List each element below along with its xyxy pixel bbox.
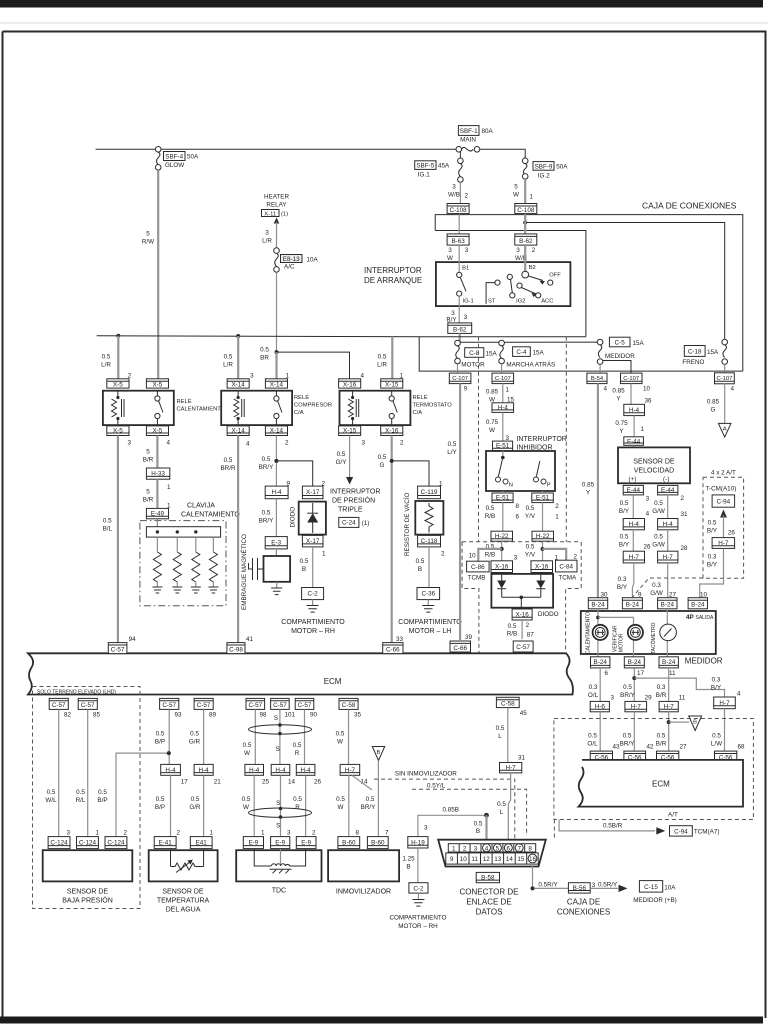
- relay 3 coil: [348, 391, 358, 426]
- connector C-107 (motor): [449, 373, 471, 384]
- connector H-6: [590, 701, 609, 711]
- svg-text:T-CM(A10): T-CM(A10): [706, 485, 737, 492]
- svg-text:14: 14: [506, 856, 514, 863]
- connector C-124 (3): [48, 837, 70, 849]
- svg-text:0.5: 0.5: [496, 725, 505, 732]
- svg-text:B/Y: B/Y: [707, 562, 718, 569]
- svg-text:0.5: 0.5: [337, 451, 346, 458]
- connector X-5 top-left: [107, 379, 129, 389]
- connector C-57 (diodo): [513, 641, 533, 652]
- svg-text:0.5: 0.5: [260, 347, 269, 354]
- svg-text:E-9: E-9: [248, 840, 258, 847]
- wire 0.5 W H-7 to B-60(8): [348, 775, 350, 836]
- svg-text:COMPARTIMIENTO: COMPARTIMIENTO: [281, 619, 345, 626]
- svg-text:L/R: L/R: [101, 362, 111, 369]
- svg-text:0.5: 0.5: [224, 354, 233, 361]
- svg-text:A: A: [723, 427, 727, 433]
- svg-text:0.5R/Y: 0.5R/Y: [538, 881, 558, 888]
- svg-text:1: 1: [167, 484, 171, 491]
- svg-text:B-58: B-58: [481, 874, 495, 881]
- svg-text:0.5: 0.5: [708, 520, 717, 527]
- connector B-24 (11): [659, 657, 678, 668]
- svg-text:C-119: C-119: [421, 489, 438, 496]
- svg-text:MOTOR – RH: MOTOR – RH: [398, 923, 438, 930]
- svg-text:B-62: B-62: [453, 327, 467, 334]
- connector X-11: [262, 210, 280, 217]
- wire col 89 (0.5 G/R) to H-4(21): [203, 709, 205, 764]
- svg-text:90: 90: [310, 711, 318, 718]
- svg-text:B/Y: B/Y: [619, 542, 630, 549]
- svg-text:A/C: A/C: [284, 264, 295, 271]
- svg-text:C/A: C/A: [413, 410, 423, 416]
- svg-text:W: W: [244, 750, 250, 757]
- svg-text:X-11: X-11: [264, 211, 276, 217]
- svg-text:3: 3: [516, 247, 520, 254]
- svg-text:C-5: C-5: [615, 340, 626, 347]
- wire B-62 to fuse feed: [459, 333, 461, 342]
- wire 0.85B H-19 to DLC pin 4: [418, 815, 487, 836]
- connector X-16 left: [491, 561, 513, 573]
- connector H-7 (-): [658, 551, 678, 563]
- svg-text:15A: 15A: [533, 350, 545, 357]
- svg-text:3: 3: [67, 830, 71, 837]
- svg-text:0.5: 0.5: [156, 730, 165, 737]
- svg-text:8: 8: [516, 503, 520, 510]
- svg-text:INMOVILIZADOR: INMOVILIZADOR: [336, 889, 391, 896]
- svg-text:4: 4: [646, 511, 650, 518]
- gauge TACOMETRO: [650, 622, 676, 654]
- svg-text:2: 2: [526, 622, 530, 629]
- wire IG.1 drop: [459, 152, 461, 158]
- svg-text:C-94: C-94: [716, 499, 730, 506]
- connector C-107 (medidor): [621, 373, 643, 384]
- svg-text:H-4: H-4: [199, 767, 210, 774]
- wire 0.5 L C-58(45) to H-7(31): [507, 708, 509, 763]
- svg-text:W/B: W/B: [448, 192, 460, 199]
- wire 0.5 BR/Y X-14(2) down + branch to X-17: [275, 436, 277, 487]
- svg-text:0.5: 0.5: [102, 354, 111, 361]
- connector B-60 (7): [367, 837, 388, 849]
- TDC wires lower: [253, 775, 255, 836]
- band outline with torn edges: [28, 653, 573, 694]
- svg-text:0.5: 0.5: [526, 505, 535, 512]
- connector B-58: [476, 872, 499, 882]
- svg-text:H-7: H-7: [345, 767, 356, 774]
- svg-text:12: 12: [483, 856, 491, 863]
- wire: bus from SBF-1 to IG.2 drop: [480, 149, 525, 158]
- wire 0.75 Y H-4 to E-44: [633, 416, 635, 437]
- svg-text:6: 6: [516, 514, 520, 521]
- connector H-4 (-): [658, 519, 678, 530]
- svg-text:H-7: H-7: [663, 554, 674, 561]
- svg-text:H-33: H-33: [151, 470, 165, 477]
- svg-text:C-57: C-57: [248, 702, 262, 709]
- wire col 35 (0.5 W) to H-7(14): [348, 709, 350, 764]
- connector C-58 (35): [339, 698, 358, 709]
- svg-text:RELÉ: RELÉ: [294, 394, 309, 401]
- wires H row to C-56 row: [599, 712, 601, 751]
- wire 5 B/R X-5(4) to H-33: [156, 436, 158, 469]
- fuse SBF-9 IG.2 50A: [522, 158, 568, 179]
- node tap relay1: [116, 334, 120, 338]
- svg-text:C-4: C-4: [516, 349, 527, 356]
- arrow up to C-94: [720, 510, 727, 518]
- svg-text:C-58: C-58: [501, 701, 515, 708]
- wire 0.5 BR/Y H-4 to E-3: [275, 499, 277, 537]
- svg-text:B-24: B-24: [691, 601, 705, 608]
- fuse row box: [419, 337, 743, 371]
- glow plug dash-dot enclosure: [140, 521, 226, 606]
- svg-text:94: 94: [129, 636, 137, 643]
- svg-text:0.5: 0.5: [293, 796, 302, 803]
- svg-text:BR: BR: [260, 355, 269, 362]
- svg-text:X-14: X-14: [270, 427, 284, 434]
- connector C-58 (45): [496, 697, 519, 707]
- svg-text:W: W: [338, 804, 344, 811]
- svg-text:R/B: R/B: [485, 552, 496, 559]
- connector B-54: [587, 373, 607, 384]
- connector H-4 (26): [296, 764, 315, 775]
- svg-text:C-107: C-107: [495, 376, 511, 382]
- svg-text:RELÉ: RELÉ: [413, 394, 428, 401]
- connector B-24 (30): [588, 598, 607, 609]
- resistor zigzag: [425, 503, 433, 533]
- svg-text:ECM: ECM: [652, 780, 670, 789]
- wire 0.5 L/Y C-107(9) to C-66(39): [459, 384, 461, 640]
- svg-text:B: B: [476, 828, 480, 835]
- svg-text:50A: 50A: [187, 154, 199, 161]
- wire 0.5 R/B X-16 to C-57(87): [521, 620, 523, 639]
- svg-text:0.5: 0.5: [623, 733, 632, 740]
- svg-text:S: S: [274, 715, 278, 722]
- connector H-22 left: [491, 531, 513, 541]
- svg-text:0.5: 0.5: [262, 510, 271, 517]
- svg-text:G: G: [711, 407, 716, 414]
- fuse outputs to connectors: [457, 364, 459, 373]
- svg-text:C-107: C-107: [452, 376, 468, 382]
- svg-text:29: 29: [645, 695, 653, 702]
- svg-text:L/R: L/R: [377, 362, 387, 369]
- wire 0.85 G to triangle A: [724, 384, 726, 423]
- connector H-7 (68): [714, 697, 736, 709]
- connector H-4 (inhibidor): [492, 403, 514, 413]
- svg-text:2: 2: [177, 830, 181, 837]
- svg-text:DIODO: DIODO: [538, 611, 559, 618]
- svg-text:G/R: G/R: [189, 804, 201, 811]
- svg-text:0.5: 0.5: [654, 500, 663, 507]
- svg-text:0.5: 0.5: [242, 796, 251, 803]
- relay 3 body: [340, 391, 411, 425]
- svg-text:45A: 45A: [438, 163, 450, 170]
- connector C-107 (marcha atras): [492, 373, 514, 384]
- connector E-51 right (below switch): [532, 493, 554, 503]
- glow plug bus bar: [146, 527, 220, 537]
- svg-text:9: 9: [450, 856, 454, 863]
- node + line to triangle B: [667, 720, 671, 724]
- svg-text:0.5Y/L: 0.5Y/L: [427, 782, 446, 789]
- svg-text:3: 3: [474, 845, 478, 852]
- connector H-4 (17): [161, 764, 181, 775]
- glow plug 4: [208, 537, 218, 593]
- connector H-7 (A10): [712, 538, 735, 549]
- svg-text:28: 28: [681, 545, 689, 552]
- svg-text:MOTOR – RH: MOTOR – RH: [291, 628, 335, 635]
- svg-text:MEDIDOR: MEDIDOR: [685, 657, 723, 666]
- svg-text:3: 3: [514, 555, 518, 562]
- svg-text:0.75: 0.75: [486, 419, 499, 426]
- wire C-5 to C-107 to H-4: [630, 384, 632, 405]
- diode box: [299, 502, 326, 535]
- ECM box (right): [579, 760, 744, 807]
- connector C-94 (A7): [670, 826, 693, 836]
- svg-text:0.5: 0.5: [191, 796, 200, 803]
- svg-text:0.5: 0.5: [190, 730, 199, 737]
- connector E-9 (3): [271, 837, 290, 849]
- svg-text:C-124: C-124: [50, 840, 68, 847]
- connector E41 (1): [190, 837, 212, 849]
- svg-text:C/A: C/A: [294, 410, 304, 416]
- connector E-44 (-): [658, 485, 678, 495]
- svg-text:C-94: C-94: [674, 829, 688, 836]
- connector C-98 (41) on ECM: [227, 643, 245, 654]
- svg-text:2: 2: [463, 845, 467, 852]
- svg-text:5: 5: [146, 449, 150, 456]
- svg-text:(-): (-): [663, 476, 669, 483]
- inhibitor diode box: [491, 574, 553, 608]
- connector C-57 (93): [160, 698, 179, 709]
- svg-text:10: 10: [460, 856, 468, 863]
- svg-text:10A: 10A: [307, 257, 319, 264]
- svg-text:3: 3: [250, 373, 254, 380]
- svg-text:ACC: ACC: [541, 299, 553, 305]
- svg-text:B-63: B-63: [451, 238, 465, 245]
- diode pair inside: [497, 574, 545, 608]
- connector C-86: [467, 561, 490, 572]
- svg-text:82: 82: [64, 711, 72, 718]
- svg-text:EMBRAGUE MAGNÉTICO: EMBRAGUE MAGNÉTICO: [239, 534, 248, 610]
- svg-text:5: 5: [146, 231, 150, 238]
- connector C-57 (101): [271, 698, 290, 709]
- wire BR down across bus2: [276, 272, 278, 379]
- connector C-84: [556, 560, 578, 572]
- svg-text:L/R: L/R: [262, 238, 272, 245]
- svg-text:C-57: C-57: [111, 646, 125, 653]
- svg-text:RELAY: RELAY: [266, 202, 287, 209]
- svg-text:C-124: C-124: [79, 840, 97, 847]
- svg-text:MOTOR – LH: MOTOR – LH: [409, 628, 452, 635]
- connector C-56 (68): [715, 751, 737, 761]
- svg-text:C-57: C-57: [162, 702, 176, 709]
- wire H-7(A10) to B-24(10): [700, 548, 724, 597]
- svg-text:0.5: 0.5: [623, 684, 632, 691]
- svg-text:3: 3: [287, 830, 291, 837]
- connector E-9 (1): [243, 837, 263, 849]
- svg-text:4: 4: [167, 440, 171, 447]
- vacuum resistor body: [415, 501, 443, 535]
- svg-text:N: N: [509, 483, 513, 489]
- svg-text:S: S: [276, 746, 280, 753]
- svg-text:C-124: C-124: [107, 840, 125, 847]
- connector C-2: [302, 588, 324, 600]
- svg-text:2: 2: [285, 440, 289, 447]
- svg-text:E41: E41: [196, 840, 208, 847]
- svg-text:0.5: 0.5: [497, 801, 506, 808]
- A/T dashed region (inhibitor): [462, 337, 581, 663]
- switch contact IG2: [507, 274, 525, 304]
- svg-text:101: 101: [285, 711, 296, 718]
- wire 0.5 G down + branch to resistor: [391, 436, 393, 643]
- connector B-24 (10): [688, 598, 707, 609]
- connector E-44: [624, 437, 644, 446]
- svg-text:E-9: E-9: [301, 840, 311, 847]
- svg-text:C-57: C-57: [52, 702, 66, 709]
- svg-text:B-24: B-24: [626, 601, 640, 608]
- svg-text:0.5: 0.5: [474, 821, 483, 828]
- svg-text:15A: 15A: [633, 340, 645, 347]
- svg-text:7: 7: [385, 830, 389, 837]
- svg-text:SBF-5: SBF-5: [416, 163, 434, 170]
- svg-text:E-49: E-49: [151, 510, 165, 517]
- connector X-14 bottom-right: [265, 426, 287, 436]
- wire col 82 to C-124(3): [58, 709, 60, 836]
- svg-text:Y/V: Y/V: [525, 552, 536, 559]
- svg-text:3: 3: [448, 247, 452, 254]
- svg-text:B-54: B-54: [591, 376, 604, 382]
- svg-text:MAIN: MAIN: [460, 137, 476, 144]
- connector C-2 (bottom): [409, 883, 428, 893]
- svg-text:H-4: H-4: [249, 767, 260, 774]
- connector E-41 (2): [154, 837, 176, 849]
- svg-text:0.3: 0.3: [652, 582, 661, 589]
- svg-text:G: G: [380, 462, 385, 469]
- svg-text:0.3: 0.3: [712, 677, 721, 684]
- svg-text:MARCHA ATRÁS: MARCHA ATRÁS: [506, 359, 555, 368]
- svg-text:2: 2: [465, 193, 469, 200]
- svg-text:B/P: B/P: [97, 797, 107, 804]
- svg-text:0.5: 0.5: [448, 441, 457, 448]
- relay 2 coil: [234, 391, 244, 426]
- svg-text:B2: B2: [529, 265, 536, 271]
- svg-text:BR/Y: BR/Y: [361, 804, 376, 811]
- svg-text:C-2: C-2: [413, 886, 424, 893]
- wire col 93 (0.5 B/P) to H-4(17): [168, 709, 170, 764]
- svg-text:3: 3: [128, 440, 132, 447]
- svg-text:B: B: [302, 566, 306, 573]
- svg-text:14: 14: [288, 779, 296, 786]
- gauge lamp VERIFICAR MOTOR: [613, 625, 644, 652]
- connector C-57 (98): [246, 698, 265, 709]
- relay 3 contact: [389, 391, 397, 426]
- svg-text:13: 13: [494, 856, 502, 863]
- svg-text:3: 3: [611, 695, 615, 702]
- svg-text:0.5: 0.5: [508, 623, 517, 630]
- fuse SBF-5 IG.1 45A: [415, 158, 464, 182]
- svg-text:C-86: C-86: [471, 564, 485, 571]
- svg-text:BAJA PRESIÓN: BAJA PRESIÓN: [62, 896, 113, 905]
- svg-text:E-51: E-51: [496, 495, 510, 502]
- svg-text:0.5: 0.5: [654, 534, 663, 541]
- arrow up to heater relay: [274, 218, 280, 224]
- svg-text:C-57: C-57: [516, 644, 530, 651]
- wire B-56 to C-15 w/ arrow: [590, 887, 618, 889]
- svg-text:6: 6: [605, 670, 609, 677]
- svg-text:B-62: B-62: [519, 238, 533, 245]
- svg-text:E-44: E-44: [661, 487, 675, 494]
- connector B-62: [515, 234, 537, 245]
- svg-text:MEDIDOR: MEDIDOR: [605, 353, 635, 360]
- bar nodes: [156, 530, 159, 533]
- connector C-124 (1): [77, 837, 99, 849]
- connector X-5 bottom-right: [146, 426, 168, 436]
- connector X-14 bottom-left: [227, 426, 249, 436]
- connector X-15 bottom-left (relay3): [339, 426, 361, 436]
- svg-text:C-2: C-2: [308, 591, 319, 598]
- svg-text:H-22: H-22: [495, 533, 509, 540]
- svg-text:L/W: L/W: [711, 741, 722, 748]
- connector H-4 (25): [245, 764, 264, 775]
- svg-text:4P: 4P: [686, 614, 694, 621]
- svg-text:27: 27: [680, 744, 688, 751]
- ground (H-19/C-2): [417, 893, 419, 899]
- svg-text:0.5: 0.5: [416, 558, 425, 565]
- svg-text:B/P: B/P: [155, 738, 165, 745]
- svg-text:COMPRESOR: COMPRESOR: [294, 403, 332, 409]
- relay 1 coil: [112, 391, 125, 426]
- svg-text:O/L: O/L: [588, 692, 599, 699]
- connector C-56 (42): [624, 751, 646, 761]
- ground (C-2): [312, 600, 314, 606]
- svg-text:C-107: C-107: [717, 376, 733, 382]
- fuse C-4 MARCHA ATRAS 15A: [499, 340, 555, 368]
- glow plug 1: [152, 537, 162, 593]
- svg-text:DE PRESIÓN: DE PRESIÓN: [332, 496, 375, 505]
- svg-text:80A: 80A: [482, 128, 494, 135]
- svg-text:9: 9: [287, 481, 291, 488]
- svg-text:2: 2: [322, 481, 326, 488]
- svg-text:93: 93: [175, 711, 183, 718]
- wires to H-7 pair: [632, 530, 634, 551]
- gauge lamp CALENTAMIENTO: [586, 612, 608, 654]
- wire 5 B/R H-33 to E-49: [156, 479, 158, 508]
- wire E-44 into sensor: [633, 445, 635, 447]
- svg-text:L: L: [498, 733, 502, 740]
- wire 0.5 B/L from X-5(3) to C-57(94): [117, 436, 119, 643]
- relay 1 body: [103, 391, 174, 425]
- svg-text:TRIPLE: TRIPLE: [338, 507, 363, 514]
- svg-text:10: 10: [469, 553, 477, 560]
- wire 0.5 BR/R X-14(4) to C-98(41): [237, 436, 239, 643]
- svg-text:B/R: B/R: [656, 741, 667, 748]
- svg-text:0.5R/Y: 0.5R/Y: [598, 881, 618, 888]
- svg-text:W: W: [447, 255, 453, 262]
- connector H-4 (clutch): [265, 486, 288, 499]
- svg-text:H-4: H-4: [301, 767, 312, 774]
- connector H-7 (27): [659, 701, 678, 711]
- svg-text:L/R: L/R: [223, 362, 233, 369]
- svg-text:G/W: G/W: [652, 508, 665, 515]
- svg-text:0.5: 0.5: [156, 796, 165, 803]
- svg-text:C-108: C-108: [517, 207, 535, 214]
- component box INMOVILIZADOR: [328, 850, 399, 895]
- svg-text:B/Y: B/Y: [711, 685, 722, 692]
- svg-text:B/Y: B/Y: [707, 528, 718, 535]
- svg-text:(1): (1): [362, 520, 370, 527]
- wires B-24 bottom to H row: [599, 668, 601, 702]
- svg-text:COMPARTIMIENTO: COMPARTIMIENTO: [398, 619, 462, 626]
- wires to H-4 pair: [632, 495, 634, 519]
- wire 0.5 L H-7(31) to DLC pin 7: [508, 773, 510, 843]
- svg-text:5: 5: [146, 489, 150, 496]
